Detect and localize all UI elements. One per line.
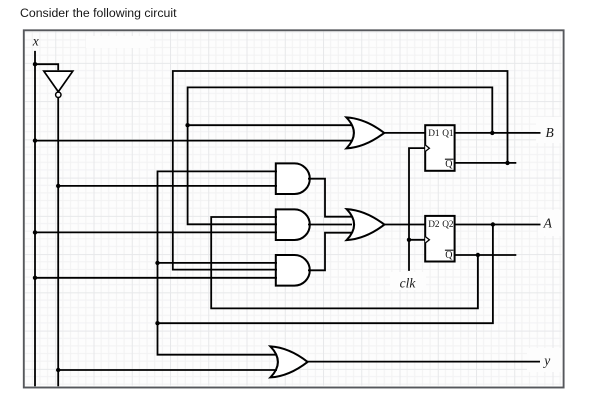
node Q2 branch junction: [155, 321, 159, 325]
node Q1bar output junction: [505, 161, 509, 165]
node Q1 branch to OR1: [185, 123, 189, 127]
wire net Q2bar feedback: AND2 top input down and over to Q2bar: [211, 217, 478, 308]
node x to AND3: [33, 276, 37, 280]
node Q1 output junction: [490, 131, 494, 135]
wire AND2 output to OR2 middle input: [308, 224, 352, 226]
node Q2 branch to AND3: [155, 261, 159, 265]
wire Q1 branch to OR1 top input: [188, 124, 352, 126]
svg-text:Q: Q: [445, 159, 453, 170]
wire xbar to ORy bottom input: [58, 369, 277, 371]
node x to inverter: [33, 62, 37, 66]
wire Q2 branch to Q2 output line: [158, 225, 493, 324]
svg-text:B: B: [545, 125, 553, 140]
wire clk branch to D2 clock: [409, 239, 426, 241]
AND gate 3 (bottom): [276, 255, 310, 286]
node x to OR1: [33, 138, 37, 142]
AND gate 1 (top): [276, 163, 310, 194]
wire clk vertical to D1 clock: [409, 148, 426, 271]
wire ORy output to y: [306, 361, 540, 363]
svg-text:clk: clk: [400, 276, 417, 291]
wire x to AND3 bottom input: [35, 277, 277, 279]
svg-text:Q1: Q1: [442, 129, 454, 139]
grid paper background: [25, 31, 562, 385]
inverter (NOT gate) on x: [44, 71, 73, 97]
svg-text:D2: D2: [428, 220, 440, 230]
wire Q1 output to B: [454, 132, 541, 134]
flip-flop U1 clock pin triangle: [425, 145, 429, 152]
white erased patches: [86, 36, 150, 48]
svg-text:A: A: [543, 216, 553, 231]
wire net Q1bar feedback: AND3 middle input up and over to Q1bar: [173, 71, 508, 270]
wire x input vertical: [34, 51, 36, 386]
node clk to D2: [407, 238, 411, 242]
flip-flop U2 clock pin triangle: [425, 237, 429, 244]
inverter bubble: [56, 92, 61, 97]
svg-text:x: x: [32, 34, 39, 49]
node xbar to AND1: [56, 184, 60, 188]
wire OR2 output to D2 input: [384, 224, 426, 226]
wire x to OR1 bottom input: [35, 140, 352, 142]
frame border: [24, 30, 564, 387]
svg-text:y: y: [542, 353, 550, 368]
wire x to AND2 bottom input: [35, 231, 277, 233]
svg-text:D1: D1: [428, 129, 440, 139]
wire net Q1 feedback: AND2 middle input up and over to Q1: [188, 87, 493, 224]
wire net Q2 feedback: AND1 top input down to ORy top input: [158, 171, 278, 354]
OR gate 1 (feeds D1): [346, 117, 384, 148]
node x to AND2: [33, 230, 37, 234]
wire xbar to AND1 bottom input: [58, 185, 277, 187]
OR gate 3 (output y): [270, 346, 307, 377]
wire xbar vertical (inverter output): [57, 97, 59, 386]
wire Q2 output to A: [454, 224, 541, 226]
inverter triangle: [44, 71, 73, 92]
wire x to inverter input: [35, 64, 58, 70]
OR gate 2 (feeds D2): [347, 209, 385, 240]
wire Q2 branch to AND3 top input: [158, 262, 278, 264]
wire AND1 output to OR2 top input: [308, 179, 352, 217]
flip-flop U1 body: [425, 125, 454, 171]
flip-flop U2 body: [425, 216, 454, 262]
svg-text:Q: Q: [445, 250, 453, 261]
flip-flop U1 (D1): [425, 125, 454, 171]
svg-text:Q2: Q2: [442, 220, 454, 230]
flip-flop U2 (D2): [425, 216, 454, 262]
wire OR1 output to D1 input: [383, 132, 426, 134]
wire Q2bar output stub: [454, 254, 516, 256]
node xbar to ORy: [56, 368, 60, 372]
AND gate 2 (middle): [276, 209, 310, 240]
wire Q1bar output stub: [454, 162, 516, 164]
node Q2bar output junction: [476, 253, 480, 257]
wire AND3 output to OR2 bottom input: [308, 233, 352, 271]
node Q2 output junction: [491, 222, 495, 226]
